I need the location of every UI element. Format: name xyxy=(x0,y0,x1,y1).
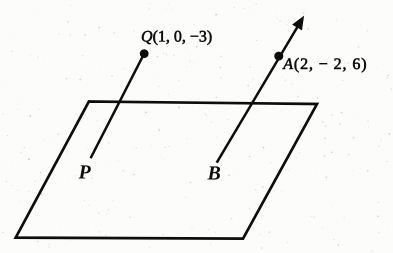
svg-text:Q(1, 0, −3): Q(1, 0, −3) xyxy=(141,28,212,45)
node Q dot xyxy=(140,49,149,58)
svg-text:A(2, − 2, 6): A(2, − 2, 6) xyxy=(282,56,367,73)
plane (parallelogram) xyxy=(16,102,317,239)
svg-text:P: P xyxy=(78,161,92,183)
svg-text:B: B xyxy=(207,163,221,185)
wire line through B and A xyxy=(217,25,299,163)
arrowhead xyxy=(293,17,303,30)
wire line PQ xyxy=(91,54,145,159)
node A dot xyxy=(274,52,283,61)
